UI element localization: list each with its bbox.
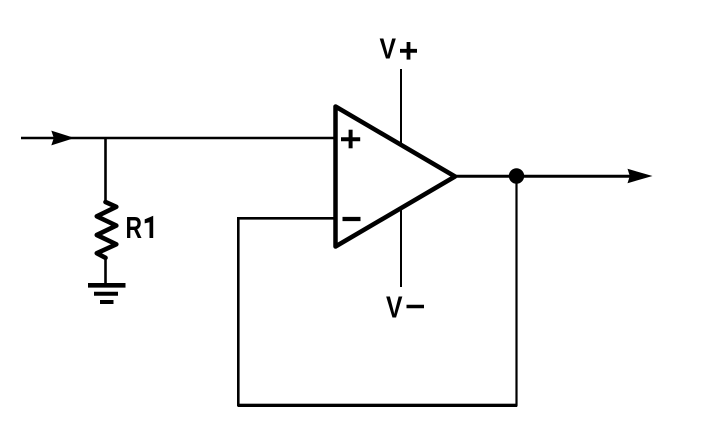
svg-text:V: V	[386, 290, 403, 325]
svg-text:V: V	[380, 33, 397, 65]
svg-text:R: R	[126, 210, 143, 245]
